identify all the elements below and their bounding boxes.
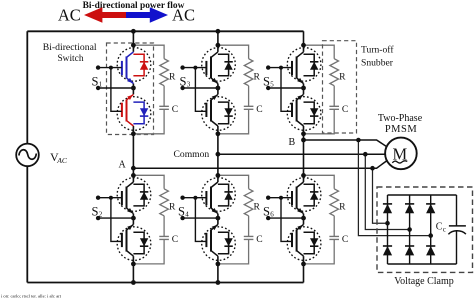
two-phase PMSM motor M (385, 138, 417, 170)
svg-text:C: C (256, 234, 262, 245)
clamp diode D5 (405, 246, 414, 255)
clamp bridge frame (388, 195, 457, 264)
svg-text:R: R (254, 71, 261, 82)
node dot Common tap (363, 152, 368, 157)
IGBT Q (leg2 bottom upper) (202, 178, 236, 214)
node dot B tap (356, 138, 361, 143)
svg-text:S: S (180, 75, 187, 89)
svg-text:C: C (342, 104, 348, 115)
IGBT Q (leg3 top lower) (287, 94, 321, 130)
AC source VAC (16, 144, 39, 167)
node A rail (133, 161, 387, 169)
svg-text:S: S (263, 205, 270, 219)
top bus (27, 30, 303, 32)
node Common rail (218, 153, 385, 155)
wire A to clamp (373, 168, 388, 223)
svg-text:AC: AC (56, 156, 68, 165)
svg-text:AC: AC (172, 6, 195, 25)
IGBT Q (leg2 top upper) (202, 48, 236, 84)
S5 terminals and gate wires (266, 65, 304, 111)
junction dots leg1 (131, 29, 136, 34)
S3 terminals and gate wires (180, 65, 218, 111)
IGBT Q (leg1 bottom upper) (117, 178, 151, 214)
node dot A tap (370, 166, 375, 171)
svg-text:R: R (254, 201, 261, 212)
leg 3 wire (303, 31, 305, 282)
IGBT Q (leg2 top lower) (202, 94, 236, 130)
leg 1 wire (132, 31, 134, 282)
snubber R/C leg2 bottom (218, 175, 254, 264)
arrow blue (right half, pointing right) (126, 7, 168, 22)
junction dots leg2 (216, 29, 221, 34)
node B rail (304, 140, 387, 147)
svg-text:R: R (339, 71, 346, 82)
IGBT Q (leg3 bottom upper) (287, 178, 321, 214)
svg-text:C: C (436, 221, 443, 232)
svg-text:1: 1 (99, 80, 103, 88)
svg-text:A: A (119, 159, 127, 170)
clamp node dot middle (407, 227, 412, 232)
svg-text:Two-Phase: Two-Phase (378, 113, 423, 124)
svg-text:C: C (256, 104, 262, 115)
svg-text:R: R (169, 71, 176, 82)
voltage clamp dashed box (377, 187, 473, 272)
svg-text:C: C (172, 104, 178, 115)
left rail (26, 31, 28, 282)
IGBT Q (leg3 top upper) (287, 48, 321, 84)
S2 terminals and gate wires (96, 196, 134, 242)
svg-text:6: 6 (270, 210, 274, 218)
snubber R/C leg1 top (133, 45, 169, 134)
clamp node dot right (428, 233, 433, 238)
snubber R/C leg2 top (218, 45, 254, 134)
IGBT Q (leg2 bottom lower) (202, 225, 236, 261)
svg-text:S: S (92, 75, 99, 89)
snubber R/C leg1 bottom (133, 175, 169, 264)
svg-text:C: C (172, 234, 178, 245)
svg-text:S: S (178, 205, 185, 219)
wire Common to clamp (365, 154, 409, 229)
IGBT Q2 (leg1 top lower, red) with diode D (blue) (117, 94, 151, 130)
junction dots leg3 (301, 43, 306, 48)
svg-text:Snubber: Snubber (361, 58, 394, 69)
svg-text:3: 3 (187, 80, 191, 88)
snubber R/C leg3 top (turn-off snubber) (304, 45, 340, 134)
clamp capacitor Cc (449, 225, 466, 227)
svg-text:S: S (263, 75, 270, 89)
svg-text:Turn-off: Turn-off (361, 45, 394, 56)
IGBT Q (leg1 bottom lower) (117, 225, 151, 261)
arrow red (left half, pointing left) (84, 7, 126, 22)
svg-text:i on: carlo; rtscl ter. alle:: i on: carlo; rtscl ter. alle: i ah: art (1, 293, 62, 298)
svg-text:4: 4 (185, 210, 189, 218)
svg-text:Bi-directional: Bi-directional (43, 42, 97, 53)
svg-text:PMSM: PMSM (385, 124, 418, 135)
svg-text:2: 2 (99, 210, 103, 218)
svg-text:R: R (339, 201, 346, 212)
svg-text:R: R (169, 201, 176, 212)
bottom bus (27, 282, 303, 284)
clamp diode D3 (426, 204, 435, 213)
wire B to clamp (358, 140, 430, 236)
svg-text:c: c (443, 226, 446, 234)
turn-off snubber dashed box (323, 41, 357, 133)
svg-text:Common: Common (174, 149, 210, 160)
leg 2 wire (217, 31, 219, 282)
svg-text:Voltage Clamp: Voltage Clamp (394, 276, 454, 287)
clamp node dot left (385, 221, 390, 226)
clamp diode D4 (383, 246, 392, 255)
svg-text:5: 5 (270, 80, 274, 88)
snubber R/C leg3 bottom (304, 175, 340, 264)
svg-text:C: C (342, 234, 348, 245)
clamp diode D1 (383, 204, 392, 213)
svg-text:B: B (289, 137, 296, 148)
S6 terminals and gate wires (266, 196, 304, 242)
svg-text:Switch: Switch (57, 54, 83, 64)
clamp diode D2 (405, 204, 414, 213)
svg-text:S: S (92, 205, 99, 219)
IGBT Q1 (leg1 top upper, blue) with diode D (red) (117, 48, 151, 84)
S4 terminals and gate wires (180, 196, 218, 242)
clamp diode D6 (426, 246, 435, 255)
IGBT Q (leg3 bottom lower) (287, 225, 321, 261)
bi-directional switch dashed box (107, 43, 154, 135)
S1 terminals and gate wires (96, 65, 134, 111)
svg-text:AC: AC (58, 6, 81, 25)
